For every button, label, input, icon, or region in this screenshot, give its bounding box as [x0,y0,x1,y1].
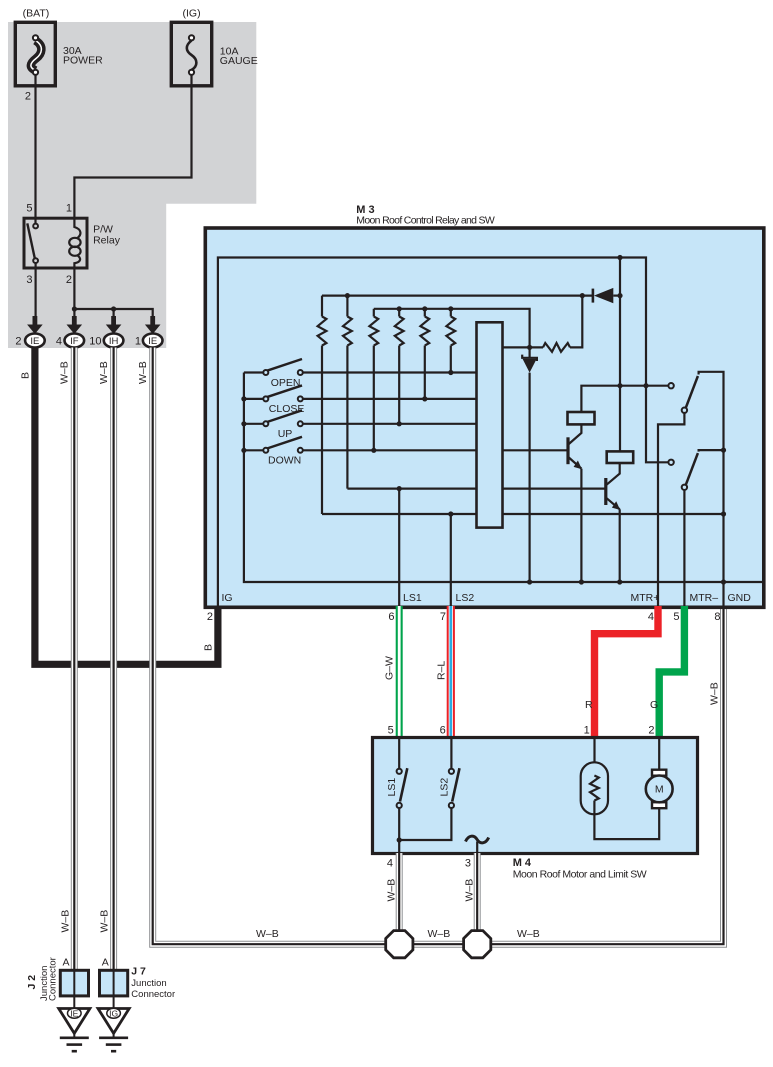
svg-text:4: 4 [648,611,654,623]
transistor Q1 [566,437,569,464]
node LS1/LS2 junction [397,837,402,842]
switch OPEN [244,359,477,389]
wire fuse IG to relay pin 1 [74,75,191,218]
svg-text:A: A [102,957,109,969]
node R3 to DOWN row [371,448,376,453]
svg-text:3: 3 [465,858,471,870]
svg-text:J 7: J 7 [131,966,146,978]
relay coil [74,218,80,239]
svg-text:1: 1 [66,203,72,215]
resistor R4 [398,309,400,317]
svg-text:B: B [19,372,31,379]
resistor R6 [450,309,452,317]
wire M4 pin3 to junction (W-B) [474,853,481,944]
junction node splice 1 (octagon splice) [386,931,413,958]
resistor R3 [373,309,375,317]
fuse 30A POWER (BAT) [15,7,103,102]
connector IE pin 2 arrow [33,316,38,326]
wire vertical x620 (diode node to coil2 top) [619,258,621,452]
connector IE oval [143,334,163,348]
zener diode ZD1 [528,347,530,357]
wire LS1 pin 6 vertical [398,489,400,606]
svg-text:IE: IE [70,1008,78,1018]
svg-text:LS2: LS2 [456,592,475,604]
relay contact K2 [668,460,673,465]
ground symbol (IG) [113,1033,115,1037]
svg-text:(BAT): (BAT) [23,7,50,19]
wire IC to bias resistor row [503,346,544,348]
wire G (thick green, MTR-) [659,606,684,738]
wire bus1 (pull-up supply row with diode) [322,295,592,297]
relay P/W Relay [24,203,121,325]
svg-text:6: 6 [388,611,394,623]
svg-text:IG: IG [109,1008,118,1018]
wire switch common bus + internal ground row [244,373,764,583]
wire R-L (LS2) [447,606,455,738]
svg-text:5: 5 [388,725,394,737]
wire IE to body ground run / GND return (W-B) [153,348,724,945]
wire bus2 (pull-up supply row 2) [374,309,530,348]
svg-text:W–B: W–B [98,361,110,384]
svg-text:GND: GND [728,592,752,604]
wire IF to J2 (W-B) [71,348,78,972]
wire row5 (R2/LS1 to IC) [347,488,476,490]
connector IH pin 10 arrow [111,316,116,326]
svg-text:LS1: LS1 [386,778,398,797]
wire M4 pin4 to junction (W-B) [396,853,403,944]
svg-text:IH: IH [109,336,119,347]
svg-text:G–W: G–W [384,656,396,680]
svg-text:LS2: LS2 [438,778,450,797]
svg-text:1: 1 [584,725,590,737]
svg-text:M 4: M 4 [513,857,532,869]
wire Q2 base row [503,488,605,490]
svg-text:W–B: W–B [517,928,540,940]
node ground row junctions [527,579,532,584]
svg-text:6: 6 [440,725,446,737]
svg-text:10: 10 [89,336,101,348]
node R4 to UP row [397,421,402,426]
IC control block U1 [477,322,503,527]
svg-text:W–B: W–B [463,879,475,902]
svg-text:2: 2 [15,336,21,348]
wire IG feed: pin 2 up, top conductor, down to relay contact K2 feed [218,258,668,607]
svg-text:Relay: Relay [93,235,121,247]
svg-text:A: A [62,957,69,969]
switch UP [244,410,477,440]
svg-text:R: R [585,699,593,711]
svg-text:B: B [203,644,215,651]
limit switch LS2 (M4) [450,738,452,769]
svg-text:5: 5 [26,203,32,215]
wire R (thick red, MTR+) [595,606,659,738]
connector IE pin 1 arrow [150,316,155,326]
connector IE oval [25,334,45,348]
svg-text:Connector: Connector [48,957,59,1001]
svg-text:W–B: W–B [59,361,71,384]
diode D1 [592,289,595,303]
ground connector IG [113,996,115,1009]
svg-text:IE: IE [148,336,157,347]
relay contact K1 [668,383,673,388]
svg-text:G: G [650,699,658,711]
svg-text:7: 7 [440,611,446,623]
svg-text:DOWN: DOWN [268,454,301,466]
circuit breaker / lamp element [593,738,595,776]
svg-text:2: 2 [66,274,72,286]
case ground tilde (pin 3) [466,836,489,843]
svg-text:W–B: W–B [59,910,71,933]
svg-text:(IG): (IG) [183,7,201,19]
svg-text:M: M [655,784,664,796]
svg-text:Moon Roof Motor and Limit SW: Moon Roof Motor and Limit SW [513,869,647,881]
svg-text:LS1: LS1 [403,592,422,604]
fuse 10A GAUGE (IG) [171,7,257,85]
wire row6 (R1/LS2 to IC) [322,513,477,515]
resistor R5 [424,309,426,317]
svg-text:2: 2 [207,611,213,623]
svg-text:J 2: J 2 [26,975,38,990]
transistor Q2 [604,478,607,505]
svg-text:W–B: W–B [99,910,111,933]
svg-text:UP: UP [278,428,293,440]
node R6 to OPEN row [448,370,453,375]
resistor R7 (horizontal) [543,343,570,352]
junction connector J7 [100,970,128,996]
svg-text:Moon Roof Control Relay and SW: Moon Roof Control Relay and SW [356,214,495,226]
connector IF pin 4 arrow [72,316,77,326]
svg-text:IF: IF [70,336,79,347]
svg-text:IG: IG [222,592,233,604]
svg-text:2: 2 [648,725,654,737]
svg-text:MTR–: MTR– [690,592,719,604]
resistor R2 [346,296,348,317]
svg-text:2: 2 [25,91,31,103]
connector IF oval [65,334,85,348]
wire IH to J7 (W-B) [110,348,117,972]
component box M3 Moon Roof Control Relay and SW [205,228,764,607]
svg-text:5: 5 [673,611,679,623]
limit switch LS1 (M4) [398,738,400,769]
connector IH oval [104,334,124,348]
svg-text:CLOSE: CLOSE [269,403,305,415]
switch CLOSE [244,385,477,415]
svg-text:W–B: W–B [428,928,451,940]
relay coil K1 [568,412,595,424]
svg-text:W–B: W–B [386,879,398,902]
svg-text:IE: IE [30,336,39,347]
wire K2 to MTR- pin 5 [683,490,685,606]
component box M4 Moon Roof Motor and Limit SW [373,738,698,854]
svg-text:3: 3 [26,274,32,286]
wire G-W (LS1) [396,606,403,738]
svg-text:W–B: W–B [709,682,721,705]
wire B (thick black) IE connector to M3 IG pin [35,348,218,665]
svg-text:4: 4 [387,858,393,870]
svg-text:R–L: R–L [435,661,447,680]
wire fuse BAT to relay pin 5 [34,75,36,224]
ground connector IE [73,996,75,1009]
svg-text:Connector: Connector [131,989,175,1000]
svg-text:4: 4 [56,336,62,348]
motor M [658,738,660,771]
junction node splice 2 (octagon splice) [464,931,491,958]
wire relay pin 2 distribution to IF IH IE [74,309,152,324]
ground symbol (IE) [73,1033,75,1037]
svg-text:8: 8 [714,611,720,623]
node top conductor / x620 branch [617,255,622,260]
wire LS2 pin 7 vertical [450,514,452,606]
svg-text:Junction: Junction [131,978,166,989]
svg-text:GAUGE: GAUGE [220,55,258,67]
svg-text:POWER: POWER [63,54,103,66]
svg-text:MTR+: MTR+ [631,592,660,604]
resistor R1 [321,296,323,317]
wire IC row to GND vertical [503,513,724,515]
svg-text:W–B: W–B [256,928,279,940]
wire Q1 base row [503,449,567,451]
junction connector J2 [60,970,88,996]
node R5 to CLOSE row [422,396,427,401]
gray harness background region [8,22,256,348]
svg-text:W–B: W–B [137,361,149,384]
relay coil K2 [607,451,634,463]
svg-text:1: 1 [135,336,141,348]
wire K1 to MTR+ pin 4 [658,413,684,606]
switch DOWN [244,437,477,467]
